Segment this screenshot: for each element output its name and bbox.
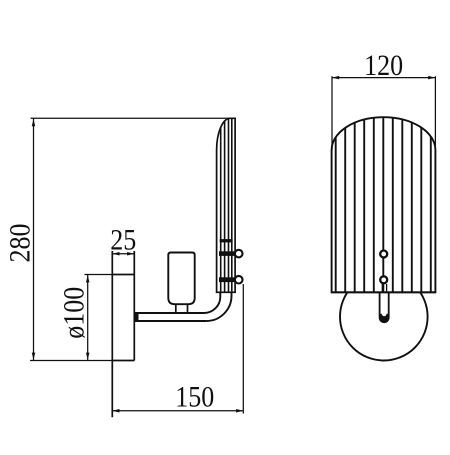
svg-text:150: 150 — [175, 380, 214, 413]
svg-text:120: 120 — [364, 49, 403, 82]
svg-text:280: 280 — [3, 224, 36, 263]
svg-text:25: 25 — [110, 223, 136, 256]
svg-text:ø100: ø100 — [57, 287, 90, 339]
